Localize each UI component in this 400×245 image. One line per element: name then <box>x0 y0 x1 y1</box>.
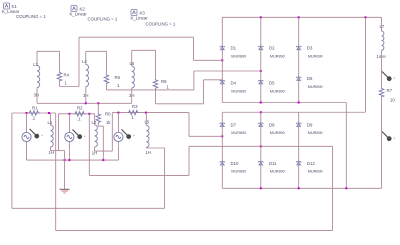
wire L3 bottom to bus <box>36 88 38 104</box>
wire R6 top lead <box>106 51 108 74</box>
wire L5 bottom horizontal <box>146 147 164 149</box>
wire L7 top lead <box>381 17 383 31</box>
voltage probe at V1 <box>30 129 43 139</box>
wire riser x79 to top bus <box>78 37 80 86</box>
wire R4 bottom to riser <box>60 86 80 88</box>
junction L4 on bus <box>85 102 87 104</box>
voltage probe at V2 <box>73 130 86 140</box>
svg-text:3H: 3H <box>34 93 40 98</box>
svg-text:+: + <box>41 134 43 138</box>
inductor L5 <box>146 125 149 147</box>
wire net B riser <box>193 71 195 90</box>
svg-text:+: + <box>133 134 135 138</box>
junction D8 top <box>260 111 262 113</box>
wire bridge1 negative drop <box>345 103 347 189</box>
wire R8 top lead <box>155 50 157 79</box>
svg-text:D4: D4 <box>231 81 237 86</box>
wire net B to bridge column 2 <box>194 70 261 72</box>
junction D5 bottom <box>260 102 262 104</box>
wire V1 bottom lead <box>26 142 28 160</box>
wire R2 right net drop <box>88 114 90 176</box>
junction D6 bottom <box>298 102 300 104</box>
svg-text:D11: D11 <box>269 161 277 166</box>
wire L5 bottom lead <box>145 146 147 149</box>
svg-text:L3: L3 <box>33 62 38 67</box>
diode D4 <box>220 81 225 84</box>
svg-text:L7: L7 <box>380 24 385 29</box>
wire R8 bottom lead <box>155 89 157 103</box>
inductor L3 <box>37 66 40 88</box>
svg-text:D5: D5 <box>269 81 275 86</box>
ground <box>60 189 70 193</box>
wire bridge2 negative rail <box>222 187 381 189</box>
svg-text:.1: .1 <box>32 116 36 121</box>
svg-text:MUR890: MUR890 <box>231 170 246 174</box>
resistor R3 <box>128 110 140 115</box>
svg-text:MUR890: MUR890 <box>231 131 246 135</box>
junction D12 bottom <box>298 187 300 189</box>
wire net C horizontal <box>156 103 204 105</box>
svg-text:1: 1 <box>167 85 170 90</box>
svg-text:COUPLING = 1: COUPLING = 1 <box>88 17 118 22</box>
junction R0 top <box>97 102 99 104</box>
resistor R2 <box>74 112 86 117</box>
svg-text:R8: R8 <box>161 79 167 84</box>
junction D7-D10 column tap <box>221 135 223 137</box>
wire D8-D11 column <box>260 112 262 188</box>
svg-text:D8: D8 <box>269 122 275 127</box>
svg-text:D1: D1 <box>231 46 237 51</box>
inductor L1 <box>51 125 54 147</box>
svg-text:+: + <box>393 76 395 80</box>
junction R0 bottom <box>102 159 104 161</box>
coupling symbol K2 <box>71 6 77 12</box>
wire V1 top lead <box>26 113 28 132</box>
inductor L6 <box>132 66 135 88</box>
wire L5 return drop <box>164 148 166 208</box>
svg-text:R1: R1 <box>32 105 38 110</box>
svg-text:COUPLING = 1: COUPLING = 1 <box>16 14 46 19</box>
svg-text:MUR890: MUR890 <box>270 89 285 93</box>
svg-text:1: 1 <box>65 81 68 86</box>
wire ground bus <box>27 159 119 161</box>
wire V2 bottom lead <box>68 142 70 160</box>
svg-text:MUR890: MUR890 <box>270 131 285 135</box>
wire D3-D6 column <box>298 17 300 102</box>
svg-text:1k: 1k <box>106 120 111 125</box>
wire to bridge2 column 2 tap <box>189 145 333 147</box>
svg-text:+: + <box>393 136 395 140</box>
wire T3 secondary top <box>132 49 156 51</box>
svg-text:R2: R2 <box>77 106 83 111</box>
diode D8 <box>259 123 264 126</box>
wire L2 top lead <box>94 114 96 125</box>
wire bottom return y230 <box>56 230 333 232</box>
wire R2 right net riser <box>188 146 190 175</box>
voltage probe at V3 <box>122 129 135 139</box>
wire R1 right to bottom return <box>55 113 57 231</box>
coupling symbol K1 <box>4 3 10 9</box>
junction V2 top <box>68 113 70 115</box>
svg-text:L6: L6 <box>130 61 135 66</box>
svg-text:R4: R4 <box>64 73 70 78</box>
source V1 <box>22 132 31 141</box>
wire R0 bottom jog <box>98 125 103 127</box>
wire R4 bottom lead <box>59 82 61 87</box>
wire R2 node line <box>58 113 94 115</box>
junction V3 top <box>117 112 119 114</box>
svg-text:1: 1 <box>132 115 135 120</box>
svg-text:D12: D12 <box>307 161 315 166</box>
svg-text:MUR890: MUR890 <box>308 85 323 89</box>
wire net A drop <box>193 37 195 60</box>
diode D11 <box>259 162 264 165</box>
junction V1 top <box>26 112 28 114</box>
voltage probe V- on load <box>382 132 395 142</box>
junction V2 bottom <box>68 159 70 161</box>
svg-text:D3: D3 <box>307 46 313 51</box>
resistor R6 <box>104 74 109 85</box>
junction D11 bottom <box>260 187 262 189</box>
svg-text:D10: D10 <box>231 161 239 166</box>
wire ground stem <box>64 151 66 190</box>
svg-text:COUPLING = 1: COUPLING = 1 <box>146 22 176 27</box>
junction net A / D1-D4 column <box>221 59 223 61</box>
wire secondary net A top bus <box>79 36 194 38</box>
wire R0 to ground bus <box>102 126 104 160</box>
wire L4 bottom to bus <box>85 87 87 104</box>
diode D3 <box>296 46 301 49</box>
diode D1 <box>220 46 225 49</box>
wire R4 top lead <box>59 51 61 71</box>
inductor L2 <box>95 125 98 147</box>
wire R6 bottom lead <box>106 85 108 90</box>
wire bridge2 positive rail <box>222 111 365 113</box>
svg-text:L5: L5 <box>145 120 150 125</box>
svg-text:MUR890: MUR890 <box>231 89 246 93</box>
wire R0 top lead <box>97 103 99 113</box>
wire L2 bottom lead <box>94 147 96 151</box>
wire L1 bottom to ground stem <box>51 150 65 152</box>
wire R1 node line <box>12 112 56 114</box>
svg-text:R7: R7 <box>387 88 393 93</box>
wire V3 bottom lead <box>117 142 119 160</box>
resistor R0 <box>96 113 101 124</box>
wire D1-D4 column <box>221 17 223 102</box>
source V3 <box>114 132 123 141</box>
wire V2 top lead <box>68 114 70 132</box>
wire R2 left drop <box>57 114 59 151</box>
coupling symbol K3 <box>131 10 137 16</box>
svg-text:MUR890: MUR890 <box>308 131 323 135</box>
wire L1 top lead <box>50 113 52 125</box>
wire to bridge2 column 1 tap <box>189 135 222 137</box>
resistor R7 <box>379 88 384 99</box>
diode D9 <box>296 123 301 126</box>
junction net B / D2-D5 column <box>260 70 262 72</box>
wire D2-D5 column <box>260 17 262 102</box>
junction bridge1 negative tie <box>345 187 347 189</box>
svg-text:1: 1 <box>117 83 120 88</box>
svg-text:1H: 1H <box>146 150 152 155</box>
wire R7 bottom lead <box>381 98 383 188</box>
wire L5 top lead <box>145 113 147 126</box>
junction L1 top <box>48 112 50 114</box>
wire net A to bridge column 1 <box>194 59 223 61</box>
wire R3 right net drop <box>188 113 190 137</box>
diode D2 <box>259 46 264 49</box>
wire L2 bottom horizontal <box>95 150 113 152</box>
wire L3 top lead <box>36 51 38 65</box>
svg-text:K_Linear: K_Linear <box>131 16 149 21</box>
svg-text:MUR890: MUR890 <box>231 55 246 59</box>
diode D5 <box>259 81 264 84</box>
svg-text:.1: .1 <box>77 116 81 121</box>
wire T1 secondary top <box>37 50 60 52</box>
svg-text:L2: L2 <box>92 120 97 125</box>
svg-text:R0: R0 <box>105 112 111 117</box>
svg-text:D7: D7 <box>231 122 237 127</box>
wire bridge positive bus <box>222 16 381 18</box>
wire L6 top lead <box>131 50 133 66</box>
wire load return riser <box>332 146 334 230</box>
wire T2 secondary top <box>86 50 107 52</box>
svg-text:MUR890: MUR890 <box>270 54 285 58</box>
svg-text:MUR890: MUR890 <box>270 170 285 174</box>
wire D7-D10 column <box>221 112 223 188</box>
svg-text:R6: R6 <box>115 75 121 80</box>
svg-text:D2: D2 <box>269 46 275 51</box>
junction L5 top <box>145 112 147 114</box>
wire V3 top lead <box>117 113 119 132</box>
svg-text:10: 10 <box>390 98 395 103</box>
wire L4 top lead <box>85 51 87 64</box>
svg-text:+: + <box>84 134 86 138</box>
wire bottom return y208 <box>12 207 165 209</box>
svg-text:D6: D6 <box>307 76 313 81</box>
junction ground stem <box>64 159 66 161</box>
svg-text:R3: R3 <box>132 104 138 109</box>
resistor R1 <box>28 111 40 116</box>
wire net C riser <box>203 80 205 104</box>
diode D6 <box>296 77 301 80</box>
wire R2 right net horizontal <box>89 174 189 176</box>
voltage probe V+ on load <box>382 72 395 82</box>
svg-text:L1: L1 <box>48 120 53 125</box>
wire V1 top net left drop <box>11 113 13 208</box>
wire bridge1 negative rail <box>222 102 346 104</box>
wire L2 bottom to R3 left <box>111 113 113 152</box>
svg-text:K_Linear: K_Linear <box>70 12 88 17</box>
svg-text:L4: L4 <box>82 59 87 64</box>
svg-text:MUR890: MUR890 <box>308 170 323 174</box>
wire bridge2 positive riser <box>365 17 367 112</box>
inductor L4 <box>86 65 89 87</box>
diode D12 <box>296 162 301 165</box>
junction D3 top <box>298 16 300 18</box>
resistor R4 <box>57 72 62 83</box>
wire L7 to R7 <box>381 50 383 87</box>
wire R3 node line <box>112 112 189 114</box>
resistor R8 <box>153 79 158 90</box>
junction D2 top <box>260 16 262 18</box>
wire secondary bottom bus <box>37 102 132 104</box>
svg-text:MUR890: MUR890 <box>308 54 323 58</box>
wire R0 bottom lead <box>97 124 99 127</box>
diode D10 <box>220 162 225 165</box>
wire D9-D12 column <box>298 112 300 188</box>
source V2 <box>65 132 74 141</box>
diode D7 <box>220 123 225 126</box>
svg-text:1mH: 1mH <box>377 54 386 59</box>
inductor L7 <box>382 31 384 50</box>
wire L1 bottom lead <box>50 147 52 151</box>
wire secondary net B horizontal <box>107 89 194 91</box>
junction R2 right net <box>88 113 90 115</box>
wire net C to D4 anode <box>204 79 223 81</box>
wire L6 bottom to bus <box>131 88 133 103</box>
junction bridge2 positive tie <box>365 16 367 18</box>
junction D8-D11 column tap <box>260 145 262 147</box>
svg-text:D9: D9 <box>307 122 313 127</box>
